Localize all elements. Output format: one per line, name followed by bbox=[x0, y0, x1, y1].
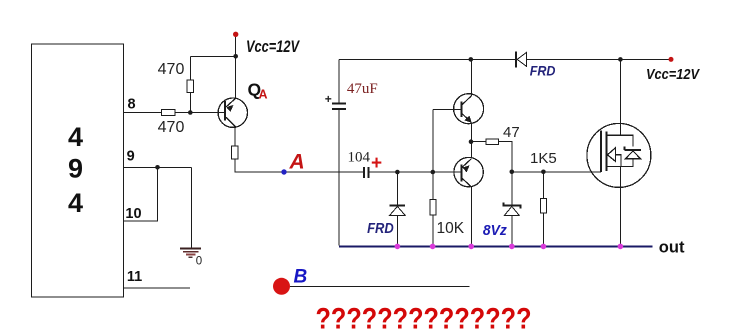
wire 1K5 bottom to out rail bbox=[542, 213, 544, 246]
wire zener bottom to out rail bbox=[511, 215, 513, 245]
MOSFET M1 body circle bbox=[587, 123, 651, 187]
node A terminal dot (blue) bbox=[281, 169, 286, 174]
junction dot out rail / zener bbox=[509, 244, 515, 250]
node junction bases/10K bbox=[431, 170, 436, 175]
wire R5 to gate node bbox=[499, 142, 513, 172]
svg-text:104: 104 bbox=[348, 150, 371, 166]
svg-text:+: + bbox=[325, 92, 332, 106]
M1 body diode triangle bbox=[625, 151, 640, 159]
wire top rail right segment bbox=[527, 58, 672, 60]
resistor R1 470 (horizontal) bbox=[162, 109, 176, 115]
wire gate line bbox=[512, 171, 601, 173]
wire pin9 bbox=[124, 166, 192, 168]
M1 channel bar bbox=[605, 132, 607, 172]
wire R3 to node A bbox=[235, 159, 363, 172]
junction dot out rail / 10K bbox=[430, 244, 436, 250]
M1 substrate arrow bbox=[607, 148, 615, 161]
svg-text:47: 47 bbox=[503, 124, 520, 141]
wire 47uF bottom to out rail bbox=[338, 110, 340, 246]
node junction 1K5 bbox=[541, 170, 546, 175]
resistor R2 470 (vertical) bbox=[187, 80, 193, 93]
wire top rail left segment bbox=[339, 58, 516, 60]
wire R2 bottom bbox=[189, 93, 191, 113]
svg-text:8Vz: 8Vz bbox=[483, 222, 507, 239]
zener ZD1 triangle bbox=[504, 206, 519, 215]
wire Q3 collector to out rail bbox=[470, 187, 472, 246]
out rail (navy) bbox=[339, 245, 652, 247]
node junction pin8/R2 bbox=[188, 110, 193, 115]
capacitor C2 104 plate left bbox=[363, 167, 365, 178]
capacitor C2 104 plate right bbox=[368, 167, 370, 178]
M1 drain stub bbox=[606, 135, 633, 147]
wire Vcc rail left bbox=[190, 55, 235, 57]
svg-text:10: 10 bbox=[125, 206, 141, 222]
node junction rail/MOSFET drain bbox=[618, 57, 623, 62]
M1 gate bar bbox=[600, 131, 602, 172]
diode D2 FRD cathode bar bbox=[390, 204, 406, 206]
capacitor C1 47uF plate top bbox=[332, 102, 346, 104]
junction dot out rail / Q3 bbox=[468, 244, 474, 250]
svg-text:4: 4 bbox=[68, 188, 83, 218]
M1 substrate to source bbox=[615, 155, 621, 167]
Q3 emitter arrow bbox=[462, 165, 469, 172]
junction dot out rail / D2 bbox=[395, 244, 401, 250]
svg-text:1K5: 1K5 bbox=[530, 150, 557, 167]
resistor R5 47 (horizontal) bbox=[486, 139, 499, 145]
transistor Q3 (PNP bottom) bbox=[454, 157, 483, 186]
svg-text:??????????????: ?????????????? bbox=[316, 303, 532, 336]
wire node B bbox=[290, 285, 469, 287]
junction dot out rail / 1K5 bbox=[541, 244, 547, 250]
wire pin9 to ground bbox=[190, 167, 192, 247]
svg-text:out: out bbox=[659, 238, 685, 256]
diode D2 FRD triangle bbox=[390, 206, 406, 215]
IC U1 label 494 bbox=[68, 122, 83, 218]
svg-text:9: 9 bbox=[68, 153, 83, 183]
Vcc terminal dot (left) bbox=[233, 32, 238, 37]
ground symbol GND 0 bbox=[180, 249, 201, 258]
svg-text:8: 8 bbox=[127, 96, 135, 112]
node junction rail/Q2 collector bbox=[469, 57, 474, 62]
svg-text:A: A bbox=[289, 151, 305, 174]
wire M1 source to out rail bbox=[619, 167, 621, 246]
node B terminal dot (red) bbox=[273, 278, 290, 295]
wire zener top bbox=[511, 172, 513, 206]
wire 1K5 top bbox=[542, 172, 544, 199]
M1 source stub bbox=[606, 159, 633, 167]
wire R2 top to Vcc rail bbox=[189, 56, 191, 80]
M1 body diode cathode bar bbox=[624, 147, 641, 150]
wire Q2 emitter to node bbox=[470, 122, 472, 158]
wire node to D2 bbox=[396, 172, 398, 205]
svg-text:+: + bbox=[371, 153, 382, 174]
wire 47uF top bbox=[338, 59, 340, 102]
wire Q2 base bbox=[433, 108, 461, 110]
transistor Q_A (PNP) bbox=[218, 98, 247, 127]
svg-text:FRD: FRD bbox=[530, 62, 556, 78]
svg-text:47uF: 47uF bbox=[347, 81, 378, 97]
Q2 emitter arrow bbox=[464, 116, 471, 123]
svg-text:Vcc=12V: Vcc=12V bbox=[646, 67, 700, 83]
wire pin8 to R1 bbox=[124, 112, 162, 114]
node junction C2/D2 bbox=[395, 170, 400, 175]
svg-text:9: 9 bbox=[127, 148, 135, 164]
wire pin10 bbox=[124, 167, 158, 221]
wire emitters to R5 bbox=[471, 141, 486, 143]
diode D1 FRD cathode bar bbox=[515, 52, 517, 68]
wire pin11 bbox=[124, 287, 191, 289]
node junction zener bbox=[510, 170, 515, 175]
svg-text:11: 11 bbox=[127, 269, 142, 285]
node junction Vcc/Q_A emitter bbox=[233, 54, 238, 59]
IC U1 494 body bbox=[32, 44, 124, 297]
svg-text:FRD: FRD bbox=[367, 220, 394, 237]
wire 10K top bbox=[432, 172, 434, 200]
svg-text:Vcc=12V: Vcc=12V bbox=[246, 38, 301, 56]
resistor R6 1K5 bbox=[541, 199, 547, 213]
diode D1 FRD triangle bbox=[517, 52, 526, 66]
wire R1 to Q_A base bbox=[175, 112, 225, 114]
resistor R4 10K bbox=[430, 200, 436, 215]
wire Q_A collector to R3 bbox=[234, 127, 236, 146]
transistor Q2 (NPN top) bbox=[454, 94, 484, 124]
svg-text:4: 4 bbox=[68, 122, 83, 152]
resistor R3 (vertical, Q_A output) bbox=[232, 146, 238, 159]
Q_A emitter arrow bbox=[226, 105, 233, 112]
wire M1 drain from rail bbox=[619, 59, 621, 135]
wire 10K bottom bbox=[432, 215, 434, 246]
svg-text:10K: 10K bbox=[437, 220, 465, 237]
svg-text:A: A bbox=[259, 88, 268, 102]
node junction pin9/pin10 bbox=[155, 165, 160, 170]
wire Vcc stub to Q_A bbox=[235, 34, 237, 98]
svg-text:B: B bbox=[294, 267, 308, 288]
wire D2 anode to out rail bbox=[396, 215, 398, 245]
wire C2 to bases bbox=[370, 171, 461, 173]
capacitor C1 47uF plate bottom bbox=[332, 108, 346, 110]
svg-text:470: 470 bbox=[158, 61, 185, 78]
zener ZD1 cathode bar with wings bbox=[503, 202, 520, 208]
wire Q2 collector to rail bbox=[470, 59, 472, 96]
wire bases vertical bbox=[432, 109, 434, 172]
junction dot out rail / source bbox=[618, 244, 624, 250]
Vcc terminal dot (right) bbox=[669, 57, 674, 62]
svg-text:0: 0 bbox=[196, 256, 202, 268]
svg-text:470: 470 bbox=[158, 119, 185, 136]
node junction emitters/R5 bbox=[469, 139, 474, 144]
